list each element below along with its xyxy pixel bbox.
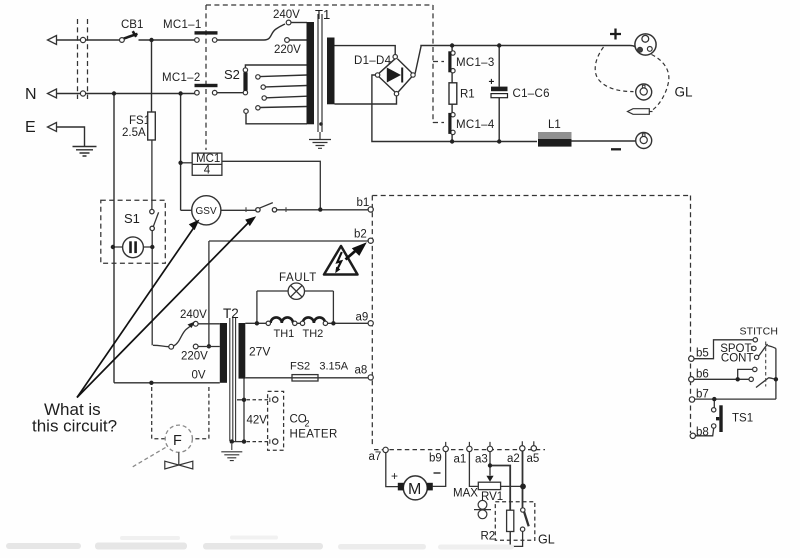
svg-text:MC1–3: MC1–3 [456,57,495,69]
svg-text:b1: b1 [357,197,370,209]
svg-text:a2: a2 [507,453,520,465]
svg-text:+: + [391,469,398,483]
svg-text:a3: a3 [475,454,488,466]
svg-text:C1–C6: C1–C6 [513,88,550,100]
svg-text:a9: a9 [356,312,369,324]
svg-text:b7: b7 [696,389,709,401]
svg-text:D1–D4: D1–D4 [354,55,392,67]
svg-text:S2: S2 [224,67,240,82]
svg-text:GSV: GSV [196,206,217,217]
svg-text:a1: a1 [454,454,467,466]
svg-text:E: E [25,119,36,136]
svg-text:TH1: TH1 [274,328,295,340]
svg-text:4: 4 [204,165,211,177]
svg-text:RV1: RV1 [481,491,503,503]
svg-text:b6: b6 [696,369,709,381]
svg-text:b8: b8 [696,427,709,439]
svg-text:MC1: MC1 [196,153,220,165]
svg-text:240V: 240V [273,9,300,21]
svg-text:42V: 42V [247,415,268,427]
svg-text:F: F [173,433,182,449]
svg-text:220V: 220V [274,44,301,56]
svg-text:b9: b9 [429,453,442,465]
svg-text:MC1–4: MC1–4 [456,119,495,131]
svg-text:N: N [25,86,37,103]
svg-text:27V: 27V [249,345,270,359]
svg-text:S1: S1 [124,211,140,226]
svg-text:b5: b5 [696,348,709,360]
svg-text:R2: R2 [481,531,496,543]
svg-text:M: M [408,481,421,498]
svg-text:a8: a8 [355,365,368,377]
svg-text:FS1: FS1 [129,115,150,127]
svg-text:a7: a7 [369,451,382,463]
svg-text:MAX: MAX [453,488,478,500]
svg-text:MC1–2: MC1–2 [162,72,201,84]
svg-text:HEATER: HEATER [290,429,338,441]
svg-text:R1: R1 [460,89,475,101]
svg-text:a5: a5 [527,453,540,465]
svg-text:220V: 220V [181,351,208,363]
svg-text:FAULT: FAULT [279,272,317,284]
svg-text:TH2: TH2 [303,328,324,340]
svg-text:CONT: CONT [721,353,754,365]
svg-text:b2: b2 [354,229,367,241]
svg-text:+: + [489,77,495,88]
svg-text:0V: 0V [192,370,206,382]
svg-text:T2: T2 [223,306,239,321]
svg-text:STITCH: STITCH [740,326,779,338]
svg-text:2: 2 [305,419,310,429]
svg-text:GL: GL [538,533,555,547]
svg-text:2.5A: 2.5A [122,127,146,139]
svg-text:MC1–1: MC1–1 [163,19,202,31]
svg-text:GL: GL [675,85,694,100]
svg-text:240V: 240V [180,309,207,321]
svg-text:FS2 3.15A: FS2 3.15A [290,361,349,373]
svg-text:L1: L1 [548,119,561,131]
svg-text:this circuit?: this circuit? [32,417,117,436]
svg-text:TS1: TS1 [732,413,753,425]
svg-text:CB1: CB1 [121,19,143,31]
